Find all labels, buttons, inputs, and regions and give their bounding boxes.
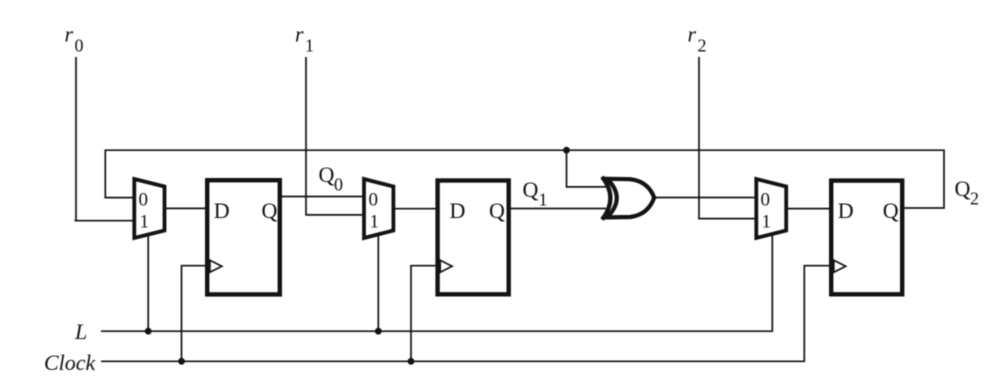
label r2 — [688, 22, 707, 56]
svg-text:0: 0 — [369, 190, 379, 211]
wire U3 clock input — [804, 266, 832, 362]
wire r1 vertical/horizontal into mux M2 input 1 — [306, 57, 366, 215]
wire Q0 from U1 to mux M2 input 0 — [281, 196, 366, 198]
junction L / M1 select — [145, 328, 152, 335]
svg-text:L: L — [74, 319, 87, 344]
wire XOR output to mux M3 input 0 — [653, 197, 758, 199]
wire U1 clock input — [182, 266, 209, 362]
wire branch from feedback to XOR top input — [567, 150, 607, 187]
label r1 — [295, 22, 314, 56]
junction feedback/XOR branch — [563, 147, 570, 154]
wire mux M3 select — [771, 235, 773, 332]
multiplexer M2 — [364, 179, 393, 238]
svg-text:1: 1 — [370, 212, 380, 233]
D flip-flop U3 — [831, 181, 902, 295]
svg-text:1: 1 — [539, 189, 548, 209]
wire r0 vertical/horizontal into mux M1 input 1 — [75, 57, 137, 221]
svg-text:0: 0 — [139, 190, 149, 211]
svg-text:0: 0 — [761, 190, 771, 211]
label Q1 — [523, 177, 548, 210]
XOR gate G1 — [602, 177, 654, 220]
wire r2 vertical/horizontal into mux M3 input 1 — [699, 57, 758, 219]
D flip-flop U1 — [207, 180, 280, 294]
svg-text:Q: Q — [262, 198, 278, 223]
svg-text:D: D — [838, 198, 854, 223]
svg-text:2: 2 — [698, 36, 707, 56]
wire Clock line — [101, 360, 804, 362]
svg-text:r: r — [65, 22, 74, 47]
svg-text:Clock: Clock — [44, 350, 97, 375]
svg-text:0: 0 — [75, 36, 84, 56]
wire L line — [101, 330, 772, 332]
svg-text:1: 1 — [140, 212, 150, 233]
label Q0 — [319, 162, 344, 195]
wire mux M3 output to U3 D input — [785, 208, 831, 210]
svg-text:1: 1 — [762, 212, 772, 233]
multiplexer M3 — [756, 179, 786, 238]
wire feedback net Q2 to mux M1 input 0 — [105, 150, 944, 208]
svg-text:1: 1 — [305, 36, 314, 56]
wire mux M2 output to U2 D input — [392, 208, 438, 210]
label Q2 — [955, 176, 980, 209]
wire mux M1 select — [147, 235, 149, 332]
svg-text:Q: Q — [883, 198, 899, 223]
svg-text:Q: Q — [523, 177, 539, 202]
svg-text:r: r — [295, 22, 304, 47]
svg-text:D: D — [214, 198, 230, 223]
svg-text:Q: Q — [489, 198, 505, 223]
wire mux M2 select — [377, 235, 379, 332]
wire mux M1 output to U1 D input — [163, 207, 207, 209]
svg-text:2: 2 — [970, 189, 979, 209]
svg-text:Q: Q — [955, 176, 971, 201]
wire U2 clock input — [411, 266, 439, 362]
multiplexer M1 — [134, 179, 164, 238]
junction L / M2 select — [375, 328, 382, 335]
junction Clock / U1 — [178, 358, 185, 365]
wire Q1 from U2 to XOR bottom input — [510, 208, 606, 210]
D flip-flop U2 — [438, 181, 509, 295]
svg-text:Q: Q — [319, 162, 335, 187]
svg-text:D: D — [450, 198, 466, 223]
svg-text:r: r — [688, 22, 697, 47]
label r0 — [65, 22, 84, 56]
junction Clock / U2 — [408, 358, 415, 365]
svg-text:0: 0 — [334, 175, 343, 195]
